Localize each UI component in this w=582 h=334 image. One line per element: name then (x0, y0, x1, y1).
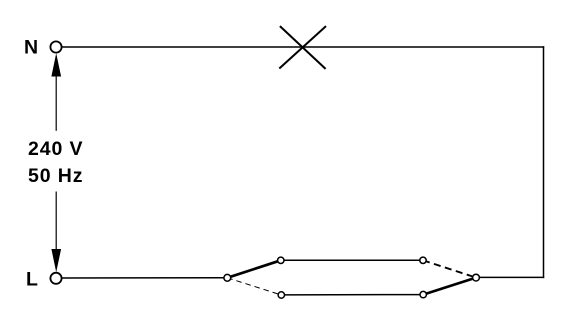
svg-text:L: L (26, 269, 38, 291)
SW1 alternate position (dashed, to bottom) (227, 278, 281, 295)
SW1 bottom contact (278, 292, 284, 298)
wire L to SW1 common (62, 277, 224, 279)
terminal N (50, 41, 61, 52)
dimension line (lower segment) (55, 192, 57, 270)
svg-text:50 Hz: 50 Hz (28, 165, 83, 187)
SW1 top contact (278, 257, 284, 263)
wire top (N to right corner) (62, 46, 544, 48)
dimension line 240V 50Hz (upper segment) (55, 56, 57, 131)
lamp X (279, 26, 326, 69)
dimension arrowhead down (51, 249, 61, 272)
SW2 alternate position (dashed, from top) (423, 260, 476, 277)
wire right (vertical) (543, 46, 545, 278)
SW1 blade (solid, to top) (227, 260, 280, 278)
two-way switch SW1 (224, 257, 285, 298)
dimension arrowhead up (51, 53, 61, 76)
svg-text:N: N (24, 37, 38, 59)
svg-text:240 V: 240 V (28, 138, 83, 160)
SW2 blade (solid, from bottom) (423, 278, 476, 295)
wire strapper top (284, 259, 420, 261)
wire bottom-right (corner to SW2 common) (479, 276, 544, 278)
SW2 bottom contact (420, 291, 426, 297)
SW2 common contact (473, 274, 480, 281)
wire strapper bottom (285, 294, 421, 296)
two-way switch SW2 (420, 257, 480, 298)
terminal L (50, 273, 61, 284)
SW2 top contact (420, 257, 426, 263)
SW1 common contact (224, 274, 231, 281)
